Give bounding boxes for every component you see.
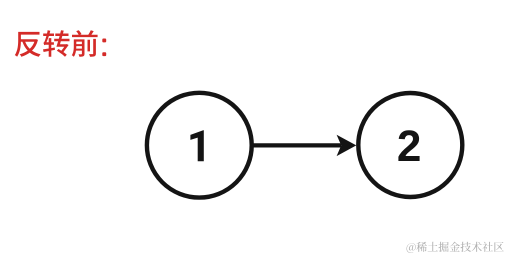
label: value 1 [190, 130, 203, 161]
label: heading text 反转前: [15, 30, 106, 57]
node 2 (circle) [358, 93, 462, 197]
node 1 (circle) [147, 93, 252, 198]
wire: arrow from node 1 to node 2 [252, 135, 357, 156]
label: value 2 [398, 130, 419, 161]
watermark: @稀土掘金技术社区 [407, 242, 504, 253]
